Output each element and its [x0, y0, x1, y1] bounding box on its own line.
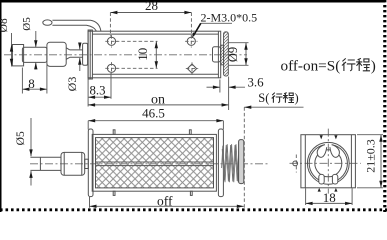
dim 21 line+arrows — [380, 135, 382, 188]
bore hidden lines — [96, 161, 214, 163]
svg-text:Ø3: Ø3 — [65, 77, 79, 92]
dim Ø5 line+arrows — [35, 31, 37, 47]
housing tab top-left — [320, 135, 323, 139]
clip outer edge arcs — [309, 145, 347, 182]
housing tab top-right — [334, 135, 337, 139]
clip foot right — [332, 174, 337, 184]
end view vertical centerline — [327, 129, 329, 194]
frame left plate — [88, 30, 92, 79]
svg-text:): ) — [295, 91, 299, 105]
svg-text:S(: S( — [258, 91, 269, 105]
svg-text:8: 8 — [28, 76, 35, 91]
dim 18 ext lines — [305, 188, 307, 205]
end view inner walls — [304, 135, 306, 188]
front neck — [85, 159, 89, 168]
tapped hole M3 bottom-right (diamond) — [187, 64, 196, 73]
lead wire upper — [52, 20, 101, 31]
page border bottom dotted — [0, 208, 387, 211]
svg-text:28: 28 — [145, 0, 158, 13]
dim Ø9 line+arrows — [245, 43, 247, 66]
svg-text:Ø5: Ø5 — [15, 131, 27, 145]
dim off line+arrows — [90, 205, 244, 207]
mounting hole top-left — [107, 37, 115, 45]
svg-text:Ø5: Ø5 — [21, 17, 33, 31]
crimp tab top 1 — [113, 130, 115, 135]
clip ear right — [329, 143, 339, 157]
dim 8.3 ext line — [110, 73, 112, 99]
plunger flange — [83, 43, 88, 65]
page border top — [0, 0, 385, 3]
clip foot left — [319, 174, 324, 184]
lead wire loop — [43, 20, 52, 25]
front shaft Ø5 — [30, 157, 61, 170]
plunger main cylinder Ø8 — [47, 42, 66, 66]
svg-text:): ) — [371, 58, 376, 75]
dim 3.6 ext right dashed — [228, 77, 230, 111]
dim Ø3 line+arrows — [79, 43, 81, 50]
dim 28 ext lines — [109, 13, 111, 37]
side terminal — [293, 161, 298, 166]
end view housing — [301, 135, 356, 188]
dim 3.6 ext left — [219, 80, 221, 93]
crimp tab top 2 — [189, 130, 191, 135]
front right plate — [218, 129, 223, 197]
dim Ø8 line+arrows — [11, 33, 13, 67]
clip ear left — [317, 143, 327, 157]
page border right dotted — [383, 0, 386, 212]
front left plate — [88, 129, 93, 197]
side view centerline — [4, 54, 247, 56]
front nut — [61, 152, 85, 175]
leader 2-M3.0*0.5 — [201, 22, 232, 24]
return spring — [222, 144, 240, 182]
dim 8.3 line+arrows — [88, 96, 111, 98]
dim 8 ext lines — [21, 68, 23, 94]
frame right inner line — [217, 31, 219, 78]
svg-text:18: 18 — [323, 190, 336, 205]
svg-text:3.6: 3.6 — [247, 75, 264, 90]
tapped hole M3 top-right — [187, 37, 195, 45]
crimp tab bottom 2 — [190, 191, 192, 195]
tube outer circle — [307, 142, 349, 184]
coil hatched winding area — [96, 138, 214, 188]
front Ø5 dim line+arrows — [30, 118, 32, 156]
dim 46.5 line+arrows — [88, 120, 223, 122]
ext line frame left — [87, 80, 89, 107]
svg-text:2-M3.0*0.5: 2-M3.0*0.5 — [201, 11, 258, 25]
plunger circle — [315, 150, 342, 177]
frame inner bottom line — [92, 73, 218, 75]
end view horizontal centerline — [290, 162, 361, 164]
coil body outline — [92, 134, 216, 191]
mounting hole bottom-left — [107, 64, 115, 72]
svg-text:off: off — [157, 193, 173, 208]
svg-text:Ø9: Ø9 — [226, 47, 240, 62]
right stub nut — [213, 47, 221, 62]
front view centerline — [30, 163, 270, 165]
dim 3.6 lines+arrows — [207, 86, 220, 88]
svg-text:46.5: 46.5 — [142, 106, 165, 121]
dim 18 line+arrows — [306, 202, 353, 204]
right outer plate hatched — [224, 32, 229, 76]
svg-text:21±0.3: 21±0.3 — [364, 139, 378, 173]
plunger end cap piece — [12, 45, 23, 66]
lead wire lower — [52, 25, 96, 31]
dim off ext line — [89, 197, 91, 208]
right small hatch block — [221, 45, 224, 65]
spring retainer washer — [239, 140, 244, 184]
dim Ø9 ext lines — [229, 42, 249, 44]
svg-text:off-on=S(: off-on=S( — [281, 58, 341, 75]
housing tab bottom-left — [318, 188, 321, 192]
svg-text:10: 10 — [135, 48, 150, 61]
dim S stroke line+arrow — [244, 106, 303, 108]
svg-text:8.3: 8.3 — [90, 84, 106, 98]
plunger mid section (8 long) — [22, 47, 47, 62]
dim 46.5 ext lines — [87, 121, 89, 130]
dim on line+arrows — [88, 104, 229, 106]
frame inner top line — [92, 33, 218, 35]
S reference dashed vertical — [243, 107, 245, 209]
dim 8 line+arrows — [22, 88, 47, 90]
frame body outline — [88, 31, 221, 78]
plunger taper — [66, 48, 70, 60]
page border left — [0, 0, 2, 212]
housing tab bottom-right — [334, 188, 337, 192]
crimp tab bottom 1 — [113, 191, 115, 195]
dim 21 ext lines — [357, 134, 383, 136]
dim 10 line+arrows — [155, 41, 157, 68]
svg-text:Ø8: Ø8 — [0, 18, 10, 32]
plunger shaft Ø3 — [70, 50, 83, 57]
dim 28 line+arrows — [110, 12, 191, 14]
dim 10 ext lines — [116, 40, 158, 42]
